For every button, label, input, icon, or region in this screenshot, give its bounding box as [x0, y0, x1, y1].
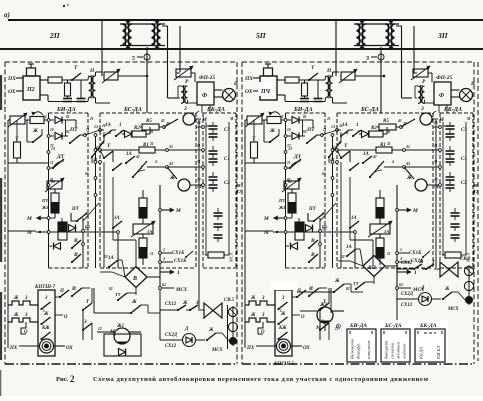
svg-text:МСХ: МСХ	[229, 252, 234, 263]
wire to relay Z	[164, 119, 178, 127]
svg-text:Ж: Ж	[334, 279, 340, 284]
svg-text:2: 2	[70, 374, 75, 384]
svg-text:21: 21	[89, 117, 94, 121]
svg-text:Д: Д	[420, 286, 425, 291]
right half SKh connector rows	[396, 257, 474, 312]
bus from ladder to Zh1 zone	[91, 323, 93, 340]
svg-text:сигнальн.: сигнальн.	[390, 342, 395, 359]
svg-text:З: З	[83, 320, 87, 325]
BI left edge bus (solid)	[48, 116, 50, 268]
svg-text:ПТ: ПТ	[41, 198, 49, 203]
indicator lamp I	[223, 89, 236, 102]
svg-text:СХ2Д: СХ2Д	[401, 292, 414, 297]
rail line 2 (bottom)	[0, 48, 483, 50]
svg-text:81: 81	[50, 178, 54, 182]
slanted resistor in BI-DA	[47, 181, 62, 189]
svg-text:БИ-ДА: БИ-ДА	[56, 107, 76, 113]
svg-text:МСХ: МСХ	[211, 348, 223, 353]
svg-text:12: 12	[43, 115, 47, 119]
svg-text:Т2: Т2	[237, 189, 241, 194]
svg-text:82: 82	[109, 287, 113, 291]
transformer windings pair B (offset 0)	[152, 24, 155, 44]
svg-text:МСХ: МСХ	[447, 307, 459, 312]
cable crossover symbol	[204, 303, 222, 318]
svg-text:СХ12: СХ12	[401, 261, 413, 266]
wire OX stub	[16, 90, 23, 92]
legend white backing	[345, 320, 448, 361]
resistor with feedback arrow	[30, 117, 44, 124]
svg-text:СХ12: СХ12	[401, 303, 413, 308]
svg-text:КПТШ-7: КПТШ-7	[34, 285, 56, 290]
svg-text:81: 81	[66, 115, 70, 119]
svg-text:11: 11	[50, 161, 54, 165]
svg-text:1: 1	[120, 130, 122, 134]
relay bar upper (BS lower zone)	[139, 198, 147, 218]
svg-text:12: 12	[101, 141, 105, 145]
svg-text:ЖЗ: ЖЗ	[41, 205, 49, 210]
inner bus x160	[159, 185, 161, 290]
relay bar lower (BS lower zone)	[139, 238, 147, 258]
svg-text:1А: 1А	[108, 256, 115, 261]
svg-text:72: 72	[50, 144, 54, 148]
svg-text:ПХ: ПХ	[84, 225, 91, 229]
svg-text:БС-ДА: БС-ДА	[384, 323, 402, 329]
right half relay Zh1 cluster	[297, 279, 363, 331]
bus to SKh12 row	[198, 268, 200, 309]
svg-text:СХ12: СХ12	[165, 302, 177, 307]
svg-text:61: 61	[162, 282, 166, 287]
svg-text:СХ1Б: СХ1Б	[174, 259, 187, 264]
wire row y130 into BS	[85, 130, 100, 135]
right signal point (mirrored copy of left block)	[242, 62, 478, 364]
diagonal wire to BS	[83, 203, 99, 221]
outer dashed enclosure of signal point	[5, 61, 237, 63]
svg-text:а): а)	[4, 11, 10, 19]
svg-text:43: 43	[168, 161, 173, 166]
wire row y167	[147, 166, 196, 168]
svg-text:З: З	[24, 313, 28, 318]
bottom boundary line	[5, 363, 237, 365]
svg-text:ТТ: ТТ	[353, 281, 359, 286]
KPTSh-7 relay box	[38, 290, 55, 356]
svg-text:дешифр.: дешифр.	[356, 343, 361, 359]
svg-text:БК-ДА: БК-ДА	[206, 107, 225, 113]
wire row y163	[8, 162, 49, 164]
svg-text:Ж: Ж	[169, 175, 176, 181]
diode top row BS	[122, 133, 124, 135]
svg-text:Ж: Ж	[444, 287, 450, 292]
svg-text:11: 11	[150, 252, 154, 256]
arrow row 1 out	[160, 271, 174, 273]
svg-text:10: 10	[50, 128, 54, 132]
svg-text:зелёного: зелёного	[402, 343, 407, 360]
svg-text:1А: 1А	[105, 123, 112, 128]
svg-text:13: 13	[197, 121, 201, 125]
svg-text:ВП: ВП	[367, 265, 377, 271]
svg-text:5П: 5П	[256, 31, 267, 40]
svg-text:ФП-25: ФП-25	[199, 75, 216, 81]
transformer windings pair A (offset 234)	[357, 24, 360, 44]
transformer windings pair B (offset 234)	[386, 24, 389, 44]
gap bus between BI and BS	[95, 133, 97, 268]
wire left vertical	[7, 120, 9, 163]
svg-text:КМ БЛ: КМ БЛ	[436, 345, 441, 360]
wire bus down from BS	[159, 290, 161, 340]
rail feed wire right	[335, 20, 337, 76]
relay diamond V	[125, 267, 147, 288]
variable resistor 1A (BS lower)	[133, 224, 153, 234]
svg-text:ПХ: ПХ	[9, 346, 18, 351]
svg-text:31: 31	[168, 144, 173, 149]
svg-text:импульсов: импульсов	[366, 340, 371, 359]
svg-text:Ж: Ж	[131, 300, 137, 305]
svg-text:жёлтого: жёлтого	[396, 341, 401, 359]
resistor (top row)	[48, 77, 62, 83]
svg-text:ТТ: ТТ	[115, 292, 121, 297]
svg-text:5: 5	[132, 56, 135, 62]
svg-text:Включения: Включения	[350, 339, 355, 359]
svg-text:П: П	[89, 68, 95, 74]
svg-text:R2: R2	[134, 126, 140, 131]
arrow M mid	[160, 209, 174, 211]
svg-text:Ф: Ф	[202, 93, 207, 99]
svg-text:72: 72	[197, 178, 201, 182]
svg-text:КЖ: КЖ	[41, 326, 50, 331]
vertical feeders in BS lower	[103, 162, 105, 268]
right page edge dashes	[477, 62, 479, 361]
svg-text:КПТШ-5: КПТШ-5	[273, 362, 295, 367]
patch: label PCh on right half	[258, 82, 274, 96]
svg-text:43: 43	[160, 119, 165, 123]
page left edge scan marks	[0, 75, 2, 110]
svg-text:ОХ: ОХ	[66, 346, 73, 351]
svg-text:R5: R5	[146, 119, 152, 124]
wire from P2 to resistor	[40, 79, 48, 81]
right half diamond VP cluster	[338, 245, 398, 290]
rail line 1 (top)	[8, 19, 483, 21]
svg-text:2х: 2х	[84, 212, 89, 216]
long left bus down	[7, 163, 9, 348]
wire row y150	[100, 149, 139, 151]
svg-text:З: З	[24, 296, 28, 301]
svg-text:1А: 1А	[114, 216, 120, 221]
wire to relay Zh	[167, 167, 177, 179]
svg-text:11: 11	[197, 144, 201, 148]
svg-text:СХ1Б: СХ1Б	[172, 251, 185, 256]
cap stack lower	[217, 208, 219, 212]
transformer P2 box	[23, 76, 40, 100]
svg-text:Ж: Ж	[13, 313, 19, 318]
svg-text:Рис.: Рис.	[56, 376, 69, 383]
patch: hide KPTSh-7 label on right half	[270, 282, 298, 290]
wire diode join vertical	[65, 120, 67, 136]
cable crossover symbol	[440, 262, 458, 277]
diode box under Zh1	[104, 334, 141, 356]
track transformer tap (offset 0)	[125, 20, 131, 24]
svg-text:З: З	[44, 296, 48, 301]
variable resistor after P (feed limiter)	[104, 72, 118, 80]
svg-text:Ж: Ж	[13, 296, 19, 301]
bottom wire of input chain	[48, 101, 88, 103]
svg-text:2П: 2П	[49, 31, 61, 40]
gap bus between BS and BK	[198, 120, 200, 268]
svg-text:4: 4	[154, 160, 157, 164]
svg-text:Схема двухпутной автоблокиро: Схема двухпутной автоблокировки переменн…	[93, 376, 428, 383]
svg-text:СВ.5: СВ.5	[224, 298, 235, 303]
wire row y231	[8, 230, 36, 232]
diode lower left	[54, 243, 61, 250]
relay diamond V	[363, 256, 385, 277]
arrester on top of P2	[27, 68, 36, 76]
output O from box	[55, 314, 63, 316]
svg-text:М: М	[236, 183, 241, 188]
relay V bar (black top)	[58, 222, 67, 240]
svg-text:Д: Д	[184, 327, 189, 332]
svg-text:3: 3	[162, 256, 165, 261]
node 81	[47, 184, 50, 187]
svg-text:11: 11	[86, 128, 90, 132]
svg-text:батарейн.: батарейн.	[384, 340, 389, 359]
svg-text:3: 3	[365, 56, 369, 62]
svg-text:В: В	[132, 276, 137, 282]
svg-text:Ж: Ж	[208, 328, 214, 333]
diamond outputs	[147, 276, 160, 278]
svg-text:БС-ДА: БС-ДА	[123, 107, 142, 113]
svg-text:1А: 1А	[346, 245, 353, 250]
svg-text:71: 71	[197, 160, 201, 164]
svg-text:13: 13	[93, 157, 97, 162]
diode row 1	[47, 119, 50, 122]
svg-text:П2: П2	[26, 87, 35, 93]
vertical resistor (top row)	[65, 83, 71, 96]
variable resistor R (relay feed)	[176, 69, 191, 77]
diode beside relay V	[69, 225, 76, 232]
svg-text:42: 42	[135, 155, 140, 159]
capacitor 1 (top row)	[63, 98, 72, 100]
svg-text:1А: 1А	[147, 229, 152, 234]
svg-text:41: 41	[107, 131, 112, 135]
svg-text:3П: 3П	[437, 31, 449, 40]
svg-text:ПТ: ПТ	[69, 127, 78, 133]
svg-text:31: 31	[149, 142, 154, 146]
svg-text:12: 12	[98, 327, 102, 331]
relay PT bar (black bottom)	[51, 193, 59, 213]
wire drops from taps (right half)	[380, 47, 382, 113]
svg-text:ПЧ: ПЧ	[260, 89, 271, 95]
svg-text:1: 1	[119, 123, 122, 128]
svg-text:З: З	[183, 106, 187, 112]
transformer windings pair A (offset 0)	[123, 24, 126, 44]
scan speck top-left	[63, 5, 65, 7]
svg-text:ПХ: ПХ	[7, 76, 16, 82]
svg-text:СХ12: СХ12	[165, 344, 177, 349]
svg-text:СВ.3: СВ.3	[460, 257, 471, 262]
diamond outputs	[385, 265, 398, 267]
svg-text:МСХ: МСХ	[175, 288, 188, 293]
wire row y120	[8, 119, 10, 121]
node 13 on BS edge	[99, 129, 102, 132]
track transformer tap (offset 234)	[359, 20, 365, 24]
diode row 2	[47, 135, 50, 138]
cable coil lamp inside box	[40, 339, 54, 353]
svg-text:КВ ДА: КВ ДА	[419, 347, 424, 360]
svg-text:1: 1	[163, 247, 165, 252]
svg-text:БК-ДА: БК-ДА	[419, 323, 437, 329]
BK inner verticals	[205, 122, 207, 255]
svg-text:О: О	[64, 315, 68, 320]
svg-text:1А: 1А	[126, 152, 133, 157]
wire drops from taps (left half)	[146, 47, 148, 113]
variable resistor (left column)	[10, 116, 25, 124]
svg-text:13: 13	[94, 124, 98, 129]
wires across gap	[196, 126, 203, 128]
node TZ	[47, 151, 50, 154]
svg-text:1: 1	[43, 309, 45, 313]
wires filter to BK caps	[201, 105, 203, 113]
resistor bottom of BK	[208, 252, 224, 258]
svg-text:ОХ: ОХ	[8, 89, 16, 95]
svg-text:Ж: Ж	[32, 128, 39, 134]
wire PX stub	[16, 77, 23, 79]
wire filter to lamp I	[214, 89, 223, 91]
svg-text:БИ-ДА: БИ-ДА	[349, 323, 367, 329]
svg-text:СХ2Д: СХ2Д	[165, 333, 178, 338]
rail feed wire left	[101, 20, 103, 76]
svg-text:41: 41	[149, 130, 154, 134]
svg-text:1: 1	[177, 270, 180, 276]
SV.5 column line	[227, 305, 229, 349]
BI-DA inner vertical bus	[82, 218, 84, 268]
svg-text:61: 61	[85, 172, 89, 176]
svg-text:б): б)	[336, 323, 341, 330]
svg-text:ПТ: ПТ	[71, 207, 80, 212]
svg-text:82: 82	[66, 130, 70, 134]
capacitor 2 (top row)	[77, 98, 86, 100]
